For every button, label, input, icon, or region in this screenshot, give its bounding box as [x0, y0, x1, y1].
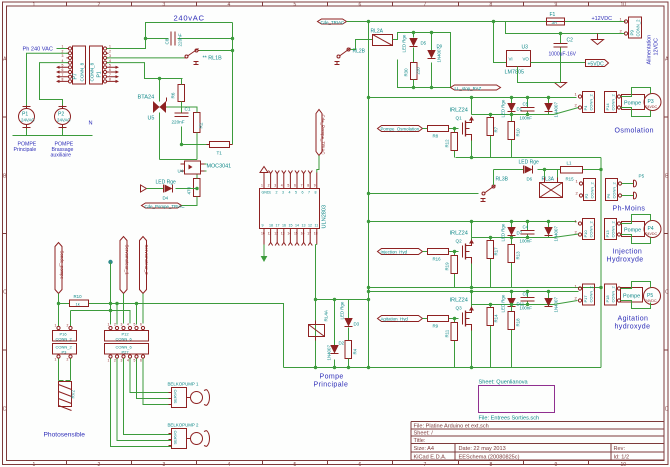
junction on 240v vertical [231, 37, 234, 40]
wire triac column [159, 79, 161, 160]
svg-text:10: 10 [621, 462, 627, 467]
svg-text:3: 3 [282, 191, 284, 195]
svg-text:RL3B: RL3B [496, 177, 509, 183]
svg-text:17: 17 [307, 232, 311, 236]
svg-text:11: 11 [315, 224, 319, 228]
diode D10 1N4007 [545, 222, 559, 242]
LED D3 [340, 300, 360, 341]
svg-text:Pompe: Pompe [624, 228, 641, 234]
connector P16 CONN_2 [53, 326, 77, 341]
svg-text:CONN_2: CONN_2 [636, 19, 641, 37]
connector P2 CONN_2 [576, 179, 596, 201]
svg-text:P3: P3 [62, 349, 68, 354]
svg-text:Cde_Pompe_TRIAC: Cde_Pompe_TRIAC [145, 204, 185, 209]
svg-text:1: 1 [62, 45, 64, 49]
net label oval Pompe_Osmolation [378, 126, 423, 132]
svg-text:7: 7 [308, 191, 310, 195]
LED D6 [519, 160, 540, 182]
svg-text:2: 2 [268, 184, 270, 188]
svg-text:P18: P18 [605, 295, 610, 303]
svg-text:EESchema (20080825c): EESchema (20080825c) [459, 455, 520, 461]
resistor R10 [508, 115, 521, 158]
svg-text:F1: F1 [550, 12, 556, 18]
svg-text:CONN_2: CONN_2 [590, 181, 595, 198]
svg-text:12VDC: 12VDC [654, 38, 660, 55]
net label oval Injection_Hyd [378, 249, 423, 255]
svg-text:C: C [665, 290, 669, 296]
svg-text:Size: A4: Size: A4 [414, 446, 435, 452]
wire mosfet source to rail [471, 264, 473, 288]
svg-text:7: 7 [424, 2, 427, 8]
svg-text:R7: R7 [494, 126, 499, 132]
svg-text:15: 15 [294, 232, 298, 236]
svg-text:Sheet: /: Sheet: / [414, 431, 434, 437]
svg-text:File: Entrees Sorties.sch: File: Entrees Sorties.sch [479, 416, 540, 422]
hierarchical sheet Quenlianova [479, 380, 555, 422]
block3 bottom rail [369, 287, 602, 289]
svg-text:SERVO: SERVO [173, 390, 178, 404]
wire oval to ULN pin top right [317, 156, 319, 173]
svg-text:Rev:: Rev: [614, 446, 626, 452]
svg-text:** RL1B: ** RL1B [203, 56, 223, 62]
svg-text:D6: D6 [527, 177, 533, 182]
svg-text:15: 15 [289, 224, 293, 228]
svg-text:8: 8 [490, 462, 493, 467]
no-connect arrows P7 lower pins [56, 66, 67, 83]
wires conn6 pins up [111, 304, 137, 325]
svg-text:Alimentation: Alimentation [647, 35, 653, 65]
LED D7 [501, 222, 523, 242]
svg-text:1: 1 [108, 359, 110, 363]
block2 coil return wire [369, 193, 479, 195]
svg-text:3: 3 [121, 323, 123, 327]
svg-text:4: 4 [127, 323, 129, 327]
resistor R7 [487, 115, 499, 158]
wire drain net [472, 98, 554, 115]
svg-text:Injection_Hyd: Injection_Hyd [381, 250, 408, 255]
svg-text:R6: R6 [171, 92, 176, 98]
junction rail/main vertical [367, 20, 370, 23]
connector P10 [575, 219, 595, 240]
svg-text:R9: R9 [433, 324, 439, 329]
resistor R3 below MOC [187, 179, 201, 197]
svg-text:C: C [3, 290, 7, 296]
main 12V vertical bus [368, 22, 370, 368]
svg-text:1: 1 [261, 184, 263, 188]
connector P7 CONN_8 [67, 46, 86, 84]
pump P4 [622, 217, 662, 241]
title block [411, 422, 664, 461]
svg-text:+12VDC: +12VDC [592, 16, 613, 22]
block3 top rail [369, 221, 577, 223]
net label oval vertical Servomoteur_1 [120, 237, 129, 294]
svg-text:4: 4 [228, 462, 231, 467]
svg-text:auxiliaire: auxiliaire [51, 153, 72, 159]
svg-text:14: 14 [287, 232, 291, 236]
svg-text:R10: R10 [74, 294, 83, 299]
svg-text:LM7805: LM7805 [505, 70, 524, 76]
svg-text:RL3A: RL3A [542, 177, 555, 183]
svg-text:2: 2 [114, 323, 116, 327]
svg-text:1000uF-16V: 1000uF-16V [549, 52, 577, 58]
svg-text:File: Platine Arduino et ext.s: File: Platine Arduino et ext.sch [414, 424, 489, 430]
wire RL2A to D5 block [393, 33, 451, 88]
svg-text:3: 3 [62, 54, 64, 58]
svg-text:Osmolation: Osmolation [615, 128, 654, 135]
resistor R10 [70, 294, 89, 307]
wire U3 ground pin [518, 67, 561, 83]
svg-text:220: 220 [416, 67, 421, 75]
svg-text:24VAC: 24VAC [57, 118, 71, 123]
svg-text:5: 5 [287, 184, 289, 188]
wire conn pin2 to ground rail [554, 234, 579, 238]
svg-text:P1: P1 [97, 71, 103, 77]
net label oval Agitation_Hyd [378, 316, 423, 322]
wire P7.4 to pump P2 [40, 63, 69, 106]
svg-text:Title:: Title: [414, 438, 426, 444]
svg-text:2: 2 [109, 49, 111, 53]
svg-text:12: 12 [308, 224, 312, 228]
svg-text:100nF: 100nF [520, 116, 533, 121]
LED D11 [501, 293, 525, 313]
svg-text:6: 6 [294, 184, 296, 188]
resistor R12 gate pulldown [445, 129, 458, 158]
svg-text:18: 18 [314, 232, 318, 236]
svg-text:1: 1 [33, 462, 36, 467]
svg-text:9: 9 [262, 224, 264, 228]
junction triac top [158, 77, 161, 80]
wire MOC right pins [205, 164, 207, 171]
svg-text:6: 6 [359, 462, 362, 467]
svg-text:1N4007: 1N4007 [554, 102, 559, 118]
wire oval2 down to conn [123, 294, 125, 324]
diode D8 1N4007 [545, 98, 559, 118]
LED D1 [501, 98, 523, 118]
wire bottom row to T1 [160, 145, 210, 160]
wire R3 to oval [182, 205, 198, 206]
svg-text:D9: D9 [437, 44, 443, 49]
svg-text:LED Rge: LED Rge [402, 34, 407, 52]
gate resistor R2 [194, 113, 204, 133]
svg-text:P14: P14 [605, 103, 610, 111]
svg-text:C2: C2 [567, 38, 574, 44]
svg-text:Q1: Q1 [456, 116, 463, 121]
net label oval vertical Cde_Pompe [316, 110, 325, 156]
wire P1.1 up and over [107, 23, 233, 49]
svg-text:10: 10 [261, 232, 265, 236]
svg-text:4: 4 [228, 2, 231, 8]
connector P1 CONN_8 [90, 46, 109, 84]
svg-text:1: 1 [55, 324, 57, 328]
svg-text:12: 12 [274, 232, 278, 236]
svg-text:P17: P17 [583, 295, 588, 303]
wire mosfet source to rail [471, 331, 473, 368]
block4 top rail [369, 291, 579, 293]
diode D2 1N4007 [327, 300, 345, 368]
block1 top rail [369, 97, 577, 99]
svg-text:13: 13 [281, 232, 285, 236]
svg-text:4: 4 [127, 359, 129, 363]
svg-text:P6: P6 [606, 193, 611, 199]
+5V power symbol [108, 260, 112, 311]
svg-text:Cde_TRIAC: Cde_TRIAC [321, 20, 345, 25]
wire conn2 to pump [621, 88, 651, 117]
svg-text:2: 2 [98, 2, 101, 8]
connector P6 CONN_2 [606, 179, 622, 201]
wire contact to RL2A [351, 40, 373, 50]
input arrow left [141, 185, 147, 192]
no-connect arrows P1 lower pins [109, 66, 120, 83]
connector P14 [605, 92, 621, 113]
svg-text:D7: D7 [517, 231, 523, 236]
connector P4 [575, 92, 595, 113]
wire MOC pin to R3 [196, 175, 198, 205]
optocoupler MOC3041 U4 [178, 161, 232, 174]
wire conn2 to pump [621, 282, 651, 309]
svg-text:Ph 240 VAC: Ph 240 VAC [23, 47, 53, 53]
svg-text:8: 8 [307, 184, 309, 188]
servo BELKOPUMP 1 [168, 382, 210, 408]
wire T1 to 240v vertical [232, 144, 234, 146]
svg-text:BELKOPUMP 1: BELKOPUMP 1 [168, 382, 199, 387]
svg-text:VI: VI [509, 57, 513, 62]
connector P13 [605, 219, 621, 240]
plug symbol [622, 174, 645, 200]
snubber capacitor C1 [172, 107, 191, 125]
svg-text:R4: R4 [353, 348, 358, 354]
wire capacitor branch [146, 38, 233, 40]
wires P27 to servos [111, 359, 172, 447]
svg-text:7: 7 [424, 462, 427, 467]
svg-text:R15: R15 [566, 177, 575, 182]
svg-text:IRLZ24: IRLZ24 [450, 231, 468, 237]
svg-text:6: 6 [359, 2, 362, 8]
wire contact up to led row [493, 170, 495, 186]
LED D4 [156, 180, 177, 201]
snubber resistor R6 [171, 85, 185, 102]
svg-text:Date: 22 may 2013: Date: 22 may 2013 [459, 446, 506, 452]
diode D9 1N4007 [428, 33, 443, 88]
svg-text:100nF: 100nF [520, 306, 533, 311]
svg-text:3: 3 [163, 462, 166, 467]
svg-text:7: 7 [301, 184, 303, 188]
svg-text:6: 6 [140, 359, 142, 363]
svg-text:LED Rge: LED Rge [340, 301, 345, 319]
wire oval1 down [58, 294, 60, 304]
relay RL4 feed wire [316, 299, 369, 301]
net label oval vertical Servomoteur_2 [140, 237, 149, 294]
svg-text:CONN_2: CONN_2 [56, 336, 73, 341]
wire label to P7 pin1 [57, 48, 68, 50]
regulator U3 LM7805 [505, 45, 531, 76]
connector P18 [605, 284, 621, 305]
svg-text:R16: R16 [433, 257, 442, 262]
svg-text:P7: P7 [73, 73, 79, 79]
svg-text:P4: P4 [583, 105, 588, 111]
svg-text:9: 9 [314, 184, 316, 188]
wire U3 input [494, 22, 507, 63]
ground symbol under C2 [555, 83, 567, 88]
svg-text:LED Rge: LED Rge [501, 99, 506, 117]
fuse F1 [547, 12, 565, 25]
svg-text:RL4A: RL4A [324, 309, 329, 321]
resistor R9 [423, 316, 459, 329]
svg-text:IRLZ24: IRLZ24 [450, 298, 468, 304]
svg-text:R30: R30 [404, 68, 409, 77]
svg-text:Q3: Q3 [456, 306, 463, 311]
pump P5 [621, 284, 661, 308]
relay contact RL1B [185, 49, 223, 65]
svg-text:D: D [665, 407, 669, 413]
svg-text:1: 1 [33, 2, 36, 8]
svg-text:2: 2 [276, 191, 278, 195]
wire triac gate to R2 [167, 107, 198, 160]
resistor R14 [487, 305, 499, 368]
relay coil RL3A [540, 177, 563, 198]
svg-text:Servomoteur_1: Servomoteur_1 [124, 245, 129, 276]
long wire bottom-left bus [59, 304, 284, 368]
wire U3 output [531, 62, 586, 64]
svg-text:9: 9 [555, 462, 558, 467]
resistor R8 [423, 126, 459, 139]
svg-text:24VAC: 24VAC [21, 118, 35, 123]
junction [144, 37, 147, 40]
svg-text:10: 10 [621, 2, 627, 8]
fuse T1 [207, 142, 233, 156]
svg-text:24VDC: 24VDC [646, 105, 658, 109]
svg-text:N: N [89, 121, 93, 127]
svg-text:Photosensible: Photosensible [44, 432, 86, 439]
svg-text:5: 5 [134, 359, 136, 363]
svg-text:5: 5 [134, 323, 136, 327]
ground rail from P9.2 [506, 22, 625, 34]
svg-text:Principale: Principale [14, 147, 37, 153]
svg-text:1: 1 [55, 358, 57, 362]
svg-text:1N4007: 1N4007 [327, 345, 332, 361]
svg-text:CONN_2: CONN_2 [589, 93, 594, 110]
wire P1.3 to relay contact [107, 57, 185, 59]
svg-text:100nF: 100nF [520, 239, 533, 244]
net label oval LL_stop_RAZ [451, 85, 501, 91]
svg-text:LED Rge: LED Rge [519, 160, 540, 166]
svg-text:1N4007: 1N4007 [437, 47, 442, 63]
junction snubber bottom [180, 143, 183, 146]
wire 240v vertical down [232, 23, 234, 145]
relay contact RL2B [335, 48, 366, 65]
svg-text:5: 5 [294, 2, 297, 8]
svg-text:R14: R14 [494, 314, 499, 323]
svg-text:3: 3 [121, 359, 123, 363]
svg-text:2: 2 [67, 358, 69, 362]
svg-text:CONN_8: CONN_8 [80, 62, 85, 81]
resistor R30 [404, 63, 421, 88]
svg-text:LL_stop_RAZ: LL_stop_RAZ [455, 86, 482, 91]
LED D5 [402, 33, 427, 63]
svg-text:ULN2803: ULN2803 [322, 205, 328, 229]
svg-text:D: D [3, 407, 7, 413]
svg-text:Cde_Pompe_TRIAC: Cde_Pompe_TRIAC [320, 115, 325, 155]
svg-text:1: 1 [108, 323, 110, 327]
resistor R11 gate pulldown [445, 319, 458, 368]
svg-text:Servomoteur_2: Servomoteur_2 [144, 245, 149, 276]
svg-text:R10: R10 [516, 128, 521, 137]
wire RL4A bottom to rail [315, 341, 317, 368]
second bus wire [71, 311, 131, 327]
svg-text:R17: R17 [494, 247, 499, 256]
svg-text:RV2: RV2 [71, 389, 76, 398]
neutral wire N [13, 129, 93, 136]
svg-text:2: 2 [67, 324, 69, 328]
right ground bus [600, 158, 602, 368]
svg-text:VO: VO [523, 57, 530, 62]
svg-text:U3: U3 [522, 45, 529, 51]
svg-text:LED Rge: LED Rge [156, 180, 177, 186]
junction rail/U3 input [492, 20, 495, 23]
IC U2 ULN2803 [260, 171, 328, 246]
svg-text:P13: P13 [605, 230, 610, 238]
svg-text:C4: C4 [523, 225, 529, 230]
svg-text:BTA24: BTA24 [138, 95, 155, 101]
svg-text:D5: D5 [421, 41, 427, 46]
servo BELKOPUMP 2 [168, 423, 210, 449]
svg-text:Q2: Q2 [456, 239, 463, 244]
svg-text:6: 6 [302, 191, 304, 195]
svg-text:24VDC: 24VDC [645, 299, 657, 303]
svg-text:220nF: 220nF [178, 33, 183, 46]
svg-text:R11: R11 [445, 329, 450, 337]
svg-text:D4: D4 [163, 196, 169, 201]
svg-text:Principale: Principale [314, 382, 349, 389]
wire contact to vertical [200, 50, 233, 52]
connector P17 [575, 284, 595, 306]
svg-text:1N4007: 1N4007 [554, 226, 559, 242]
pump motor P2 [55, 106, 71, 129]
svg-text:R8: R8 [433, 134, 439, 139]
svg-text:R12: R12 [445, 139, 450, 148]
svg-text:Pompe: Pompe [623, 294, 640, 300]
svg-text:Ph-Moins: Ph-Moins [613, 206, 646, 213]
svg-text:11: 11 [268, 232, 272, 236]
svg-text:CONN_8: CONN_8 [90, 62, 95, 81]
wire P7.2 to pump P1 [27, 53, 69, 105]
main +12V rail [347, 21, 626, 23]
svg-text:6: 6 [140, 323, 142, 327]
wire drain net [472, 222, 554, 240]
resistor R18 [508, 305, 521, 368]
svg-text:RL2A: RL2A [371, 29, 384, 35]
svg-text:CONN_2: CONN_2 [611, 93, 616, 110]
svg-text:4: 4 [289, 191, 291, 195]
wire LED row [147, 188, 198, 190]
ground arrow under ULN pin9 [262, 245, 267, 262]
svg-text:BELKOPUMP 2: BELKOPUMP 2 [168, 423, 199, 428]
svg-text:R19: R19 [445, 262, 450, 271]
wire conn2 to pump [621, 215, 651, 244]
svg-text:CONN_6: CONN_6 [116, 336, 133, 341]
svg-text:8: 8 [490, 2, 493, 8]
block1 bottom rail [456, 157, 602, 159]
wire drain net [472, 292, 554, 307]
svg-text:P9: P9 [630, 30, 635, 36]
svg-text:D2: D2 [339, 341, 345, 346]
relay contact RL3B [481, 177, 509, 202]
svg-text:8: 8 [315, 191, 317, 195]
svg-text:U5: U5 [148, 116, 155, 122]
ground symbol on rail [592, 34, 604, 45]
svg-text:14: 14 [295, 224, 299, 228]
wire RL3A pins [545, 170, 558, 178]
svg-text:9: 9 [555, 2, 558, 8]
